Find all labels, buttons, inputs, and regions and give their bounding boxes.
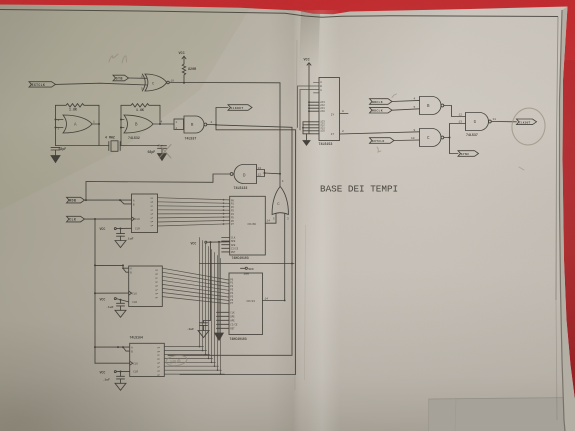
shift register SR1 74LS164 — [132, 194, 158, 233]
wire 2C pull-up stubs — [309, 101, 319, 103]
wire gate E left input from counter 1 CO — [265, 214, 276, 224]
power VCC symbol above 820R — [179, 52, 187, 63]
wire bus SR2 outputs fan to counter 2 — [162, 268, 229, 304]
wire gate C output long run to right — [169, 82, 280, 84]
wire oscillator bottom rail — [56, 145, 109, 147]
signal flag WRCLK — [370, 99, 393, 105]
fold crease line — [295, 40, 298, 390]
shift register SR3 74LS164 — [130, 343, 165, 376]
wire gate B input tie — [120, 105, 122, 145]
node junction at 820R pull-up — [183, 82, 185, 84]
schematic frame right — [556, 17, 558, 301]
signal flag EXTCLK (right) — [370, 138, 395, 144]
wire gate D tied inputs to vertical node — [257, 170, 265, 177]
wire clock distribution column — [94, 219, 96, 363]
wire gate E right input from counter 2 CO — [263, 214, 285, 301]
wire to SR3 inputs A/B — [95, 346, 130, 348]
wire CLK branch to SR2 inputs — [95, 265, 129, 268]
wire gate A output node — [98, 105, 100, 145]
signal flag CLKOUT (oscillator output) — [228, 105, 252, 111]
wire VCC rail down to cap — [204, 242, 211, 320]
wire CLK to SR1 and clock column — [85, 218, 132, 220]
power VCC at SR2 — [100, 297, 129, 302]
wire 1C stubs — [302, 122, 304, 134]
resistor 1.8K feedback of gate B — [121, 104, 160, 112]
ground filled near counter 2 — [215, 333, 224, 340]
power VCC at counter 1 — [191, 241, 230, 246]
wire gate C2 output node — [444, 137, 450, 139]
wire bus SR3 outputs up to vertical bus — [164, 347, 224, 375]
pin 8 stub 2Y — [340, 113, 349, 115]
wire RDCLK to gate B2 pin 5 — [392, 109, 420, 110]
pencil scribble top left a — [109, 54, 118, 62]
wire CLK branch to SR2 clock — [95, 292, 129, 294]
wire 1Y pin 2 to gate C2 pin 9 — [340, 132, 420, 134]
signal flag CLK — [67, 216, 85, 222]
wire gate D output run to left edge — [86, 174, 230, 200]
pencil mark near EXTCLK right — [377, 147, 381, 152]
power VCC at 74LS153 — [304, 59, 312, 68]
signal flag RDCLK — [370, 107, 393, 113]
or gate E pointing up — [272, 187, 289, 221]
multiplexer U 74LS153 — [319, 78, 340, 141]
signal flag RDB — [67, 197, 85, 203]
ground at SR2 cap — [115, 310, 126, 317]
pen circle annotation around CLKOUT — [510, 106, 548, 147]
wire node up to gate G pin 13 — [450, 124, 466, 138]
wire bus SR1 outputs to counter 1 — [158, 198, 230, 226]
ground hollow at counter 2 cap — [198, 331, 209, 338]
capacitor 68pF left — [51, 147, 66, 155]
signal flag CLKOUT (final output) — [517, 119, 537, 125]
pencil scribble top left b — [122, 56, 127, 63]
pencil mark below SYNC — [519, 167, 524, 170]
resistor 1.8K feedback of gate A — [56, 104, 100, 112]
capacitor .1uF at SR3 — [103, 372, 125, 384]
wire EXTCLK to gate C2 pin 10 — [394, 139, 420, 142]
wire gate G output to CLKOUT flag — [491, 121, 516, 123]
signal flag EXTCLK (top-left input) — [29, 82, 56, 87]
wire CLK branch to SR3 clock — [95, 362, 130, 364]
capacitor .1uF at SR2 — [106, 300, 125, 311]
buffer input box before gate R — [174, 119, 184, 130]
shift register SR2 74LS164 — [129, 266, 163, 307]
counter U2 74HC40103 (first) — [230, 196, 266, 255]
wire gate E output up — [279, 174, 281, 187]
wire RST rail and filled ground — [218, 242, 220, 333]
ground below left capacitor — [51, 156, 60, 163]
wire EXTCLK to gate C lower input — [56, 83, 148, 85]
nand gate G 74LS37 — [466, 113, 497, 137]
power VCC at SR3 — [100, 370, 130, 374]
power VCC at SR1 — [100, 227, 132, 231]
counter U4 74HC40103 (second) — [229, 273, 263, 335]
ground below right capacitor (crossed out in pencil) — [158, 154, 167, 161]
capacitor .1uF at SR1 — [117, 229, 134, 241]
ground at SR1 cap — [115, 241, 126, 248]
signal flag STB — [113, 75, 129, 81]
xor gate C (74LS86) top-left — [141, 74, 174, 91]
nand gate C2 — [420, 129, 444, 147]
or-gate B of oscillator 74LS32 — [124, 115, 163, 140]
schematic frame top — [0, 10, 558, 18]
wire gate B2 output to gate G pin 12 — [444, 106, 466, 117]
wire vertical drop to gate E output node — [279, 83, 281, 174]
wire RDB to SR1 inputs A/B — [85, 199, 132, 201]
red sliver bottom-right corner — [572, 405, 575, 431]
nand gate D 74LS133 (mirrored, inputs on right) — [230, 165, 261, 184]
wire node down to SYNC flag — [450, 138, 459, 154]
signal flag SYNC — [458, 151, 479, 157]
wire WRCLK to gate B2 pin 4 — [392, 100, 420, 101]
wire long clock run to right and down — [168, 125, 292, 355]
pin labels inside 74LS153 — [320, 81, 334, 136]
wire vertical bus between counters and SR3 — [199, 238, 222, 375]
capacitor 68pF right — [148, 146, 167, 154]
wire second run feeding mux select — [180, 125, 296, 375]
ground below 74LS153 — [306, 134, 308, 141]
ground at SR3 cap — [115, 383, 126, 390]
wire gate B output node — [159, 105, 161, 124]
paper right folded edge — [560, 7, 575, 431]
sheet underneath, bottom right — [429, 398, 575, 431]
red table darkening along right edge — [0, 0, 1, 1]
wire third mux select stub — [298, 86, 320, 127]
resistor 820R — [182, 63, 197, 83]
wire gate A input tie / left node — [55, 105, 57, 145]
wire STB to gate C upper input — [129, 77, 148, 79]
or-gate A of crystal oscillator — [58, 115, 96, 133]
pencil tick near WRCLK — [392, 94, 397, 98]
wire gate R output / clock node — [207, 124, 216, 126]
wire VCC pull-up column — [308, 67, 310, 134]
capacitor .1uF at counter 2 — [187, 321, 208, 332]
wire clock node up to CLKOUT flag — [216, 108, 228, 125]
crystal 4 MHZ — [105, 135, 120, 151]
nand gate B2 — [420, 97, 444, 115]
nand gate R 74LS37 — [184, 116, 213, 141]
pencil note circled near SR3 — [165, 354, 187, 367]
power +VCC pull-up 10K — [200, 263, 295, 276]
